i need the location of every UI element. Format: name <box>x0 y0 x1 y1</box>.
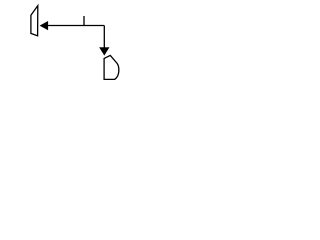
junction tick <box>83 16 85 26</box>
background <box>0 0 150 93</box>
node A (tall flag shape, top-left) <box>31 6 38 36</box>
arrowhead (down-pointing, solid) <box>100 48 109 55</box>
wire (vertical, down from corner) <box>103 26 105 49</box>
wire (horizontal, arrow into node A) <box>47 25 105 27</box>
node B (D-shaped blob, bottom-right) <box>104 55 119 79</box>
arrowhead (left-pointing, solid) <box>40 22 48 30</box>
